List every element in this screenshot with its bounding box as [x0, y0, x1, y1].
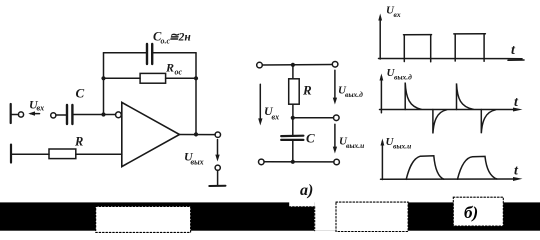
svg-text:R: R — [302, 83, 312, 98]
white selection box 1 — [96, 206, 191, 232]
ground — [209, 185, 225, 187]
wire — [12, 153, 49, 155]
label U_vyx.d (graph 2) — [387, 67, 413, 82]
wire (feedback right vertical) — [195, 53, 197, 135]
svg-text:вых.д: вых.д — [394, 73, 412, 82]
resistor R (non-inverting input) — [49, 149, 76, 159]
wire (Roc row left) — [104, 77, 141, 79]
svg-text:R: R — [165, 61, 174, 75]
waveform: integrated humps — [406, 156, 497, 180]
label U_vyx.i (graph 3) — [386, 136, 412, 151]
label a) — [300, 182, 313, 199]
node circle (RC mid-right) — [334, 115, 340, 121]
resistor Roc (feedback) — [140, 73, 166, 83]
capacitor C (RC) — [281, 136, 303, 140]
arrow U_vyx (output voltage) — [215, 140, 219, 162]
wire (RC top) — [262, 64, 332, 67]
wire (RC middle row) — [293, 117, 334, 119]
op-amp U1 — [116, 102, 180, 166]
label U_vx (RC) — [264, 104, 279, 122]
wire (Coc row right) — [153, 52, 196, 54]
svg-text:t: t — [514, 95, 519, 110]
svg-text:вых.и: вых.и — [393, 142, 411, 151]
capacitor C (input) — [67, 105, 72, 124]
junction (Roc right) — [194, 76, 198, 80]
wire — [292, 65, 294, 79]
label U_vyx.d — [338, 85, 363, 100]
svg-text:вых.и: вых.и — [346, 141, 364, 150]
arrow U_vyx.d — [333, 70, 337, 104]
wire — [292, 104, 294, 118]
terminal bar (input, top-left) — [10, 104, 12, 123]
node circle (lower output terminal) — [215, 165, 220, 170]
black redaction bar — [0, 202, 540, 230]
label U_vyx.i — [339, 136, 364, 151]
label Coc ~ 2n — [153, 30, 191, 46]
capacitor Coc (feedback) — [147, 44, 152, 64]
resistor R (RC) — [289, 79, 300, 104]
white selection box 2 — [336, 202, 408, 231]
wire (RC bottom) — [264, 161, 334, 163]
wire — [56, 114, 66, 116]
svg-text:t: t — [511, 43, 516, 58]
label U_vx — [29, 98, 44, 113]
label U_vyx — [184, 150, 204, 167]
white gap in bar — [314, 202, 336, 231]
junction (input node) — [101, 112, 105, 116]
terminal bar (input, bottom-left) — [10, 145, 12, 163]
node circle — [51, 113, 56, 118]
label t (graph 1) — [511, 43, 516, 58]
waveform: differentiated spikes — [405, 83, 495, 134]
label t (graph 2) — [514, 95, 519, 110]
wire — [74, 114, 116, 116]
junction (RC top) — [291, 63, 295, 67]
svg-text:вх: вх — [394, 10, 401, 19]
white notch above dotted black box — [289, 202, 314, 207]
label R — [74, 135, 83, 149]
graph 3 axes (U_vyx.i vs t) — [381, 139, 523, 182]
node circle (RC bottom-right) — [334, 159, 340, 165]
graph 1 axes (U_vx vs t) — [378, 14, 524, 61]
junction (RC bottom) — [291, 160, 295, 164]
svg-text:C: C — [306, 131, 315, 146]
node (input terminal circle) — [18, 112, 23, 117]
wire — [217, 171, 219, 186]
svg-text:вых: вых — [191, 158, 204, 167]
svg-text:вх: вх — [272, 113, 280, 122]
wire (Coc row left) — [104, 52, 147, 54]
wire — [12, 114, 19, 116]
arrow U_vx (input voltage) — [28, 111, 39, 115]
label Roc — [165, 61, 183, 77]
wire — [292, 118, 294, 136]
svg-text:t: t — [514, 164, 519, 179]
svg-text:а): а) — [300, 182, 313, 199]
arrow U_vyx.i — [333, 124, 337, 153]
node circle (RC top-left) — [257, 62, 263, 68]
label C (RC) — [306, 131, 315, 146]
svg-text:C: C — [76, 86, 85, 101]
svg-text:≅2н: ≅2н — [169, 32, 191, 44]
wire — [292, 140, 294, 162]
svg-text:вх: вх — [37, 104, 45, 113]
label R (RC) — [302, 83, 312, 98]
wire (feedback left vertical) — [103, 53, 105, 115]
svg-text:R: R — [74, 135, 83, 149]
white selection box 3 with label b) — [453, 197, 503, 226]
svg-text:вых.д: вых.д — [345, 90, 363, 99]
junction (Roc left) — [101, 76, 105, 80]
node circle (RC top-right) — [332, 62, 338, 68]
wire (op-amp output) — [180, 134, 216, 136]
wire (Roc row right) — [166, 77, 196, 79]
waveform: input square pulses — [404, 34, 486, 62]
node (output terminal circle) — [215, 132, 220, 137]
junction (RC middle) — [291, 116, 295, 120]
junction (output node) — [194, 132, 198, 136]
label t (graph 3) — [514, 164, 519, 179]
node circle (RC bottom-left) — [259, 159, 265, 165]
graph 2 axes (U_vyx.d vs t) — [380, 74, 523, 113]
svg-text:ос: ос — [175, 68, 183, 77]
wire — [76, 153, 122, 155]
label U_vx (graph 1) — [386, 5, 401, 20]
arrow U_vx (RC input) — [258, 84, 262, 125]
svg-text:б): б) — [464, 203, 478, 222]
label C (input capacitor) — [76, 86, 85, 101]
